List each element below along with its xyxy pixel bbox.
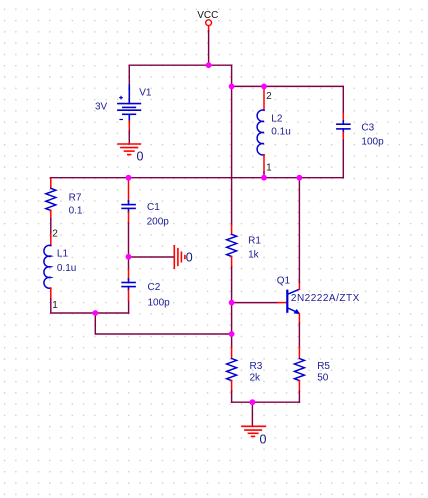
svg-text:V1: V1 xyxy=(139,88,152,99)
inductor L1 pin 1 stub xyxy=(50,288,52,299)
wire bottom rail xyxy=(232,401,300,403)
svg-text:200p: 200p xyxy=(147,216,170,227)
wire ground stub bottom xyxy=(251,402,253,426)
node L2 pin1 junction xyxy=(261,175,267,181)
resistor R3 pin stub bottom xyxy=(231,381,233,392)
node L2 pin2 junction xyxy=(261,84,267,90)
svg-text:100p: 100p xyxy=(148,297,171,308)
wire C2 bottom riser xyxy=(128,301,130,314)
svg-text:R7: R7 xyxy=(69,192,82,203)
wire C3 branch upper xyxy=(342,86,344,113)
resistor R1 zigzag xyxy=(227,234,237,256)
svg-text:L2: L2 xyxy=(271,114,283,125)
svg-text:2: 2 xyxy=(266,91,272,102)
wire VCC vertical xyxy=(208,31,210,65)
inductor L2 pin 2 stub xyxy=(263,86,265,110)
svg-text:C1: C1 xyxy=(147,202,160,213)
Q1 collector pin stub xyxy=(298,283,300,290)
svg-text:0: 0 xyxy=(260,432,267,446)
node bus-tank junction xyxy=(229,84,235,90)
svg-text:Q1: Q1 xyxy=(277,275,291,286)
svg-text:1: 1 xyxy=(266,162,272,173)
inductor L1 coil xyxy=(44,245,51,288)
node C1-C2 midpoint junction xyxy=(126,254,132,260)
node VCC port symbol xyxy=(206,20,212,26)
svg-text:3V: 3V xyxy=(95,101,108,112)
svg-text:2N2222A/ZTX: 2N2222A/ZTX xyxy=(291,293,360,304)
wire collector riser xyxy=(298,178,300,283)
wire R1 to R3 vertical xyxy=(231,267,233,347)
ground 0 under V1 xyxy=(118,144,140,155)
wire R3 to bottom rail xyxy=(231,391,233,402)
resistor R7 pin stub bottom xyxy=(50,210,52,218)
resistor R3 zigzag xyxy=(227,359,237,381)
Q1 base pin stub xyxy=(278,302,287,304)
capacitor C3 pin stub top xyxy=(342,114,344,121)
resistor R3 pin stub top xyxy=(231,347,233,358)
svg-text:VCC: VCC xyxy=(197,10,218,21)
wire L2 bottom xyxy=(263,172,265,178)
node rail-C1 junction xyxy=(126,175,132,181)
capacitor C3 body xyxy=(337,121,350,133)
V1 minus pin stub xyxy=(128,121,130,131)
svg-text:50: 50 xyxy=(317,373,329,384)
svg-text:0: 0 xyxy=(137,149,144,163)
svg-text:C2: C2 xyxy=(148,282,161,293)
wire feedback net bottom xyxy=(95,313,231,334)
svg-text:0.1: 0.1 xyxy=(69,206,83,217)
svg-text:L1: L1 xyxy=(57,248,69,259)
wire C3 branch lower xyxy=(342,140,344,178)
svg-text:R1: R1 xyxy=(248,236,261,247)
wire emitter to R5 xyxy=(298,323,300,347)
battery V1 body xyxy=(118,85,140,121)
wire rail to C1 xyxy=(128,178,130,181)
svg-text:R5: R5 xyxy=(317,361,330,372)
node rail-collector junction xyxy=(297,175,303,181)
capacitor C2 pin stub bottom xyxy=(128,290,130,301)
svg-text:2k: 2k xyxy=(250,373,262,384)
svg-text:2: 2 xyxy=(52,228,58,239)
ground 0 bottom xyxy=(242,426,265,436)
wire base horizontal xyxy=(232,302,278,304)
node feedback tap junction xyxy=(92,310,98,316)
wire main horizontal rail xyxy=(50,177,343,179)
wire R5 to bottom rail xyxy=(298,391,300,402)
capacitor C2 body xyxy=(122,279,135,290)
node base junction xyxy=(229,300,235,306)
svg-text:R3: R3 xyxy=(250,361,263,372)
svg-text:C3: C3 xyxy=(361,122,374,133)
resistor R5 zigzag xyxy=(294,359,304,381)
resistor R1 pin stub top xyxy=(231,225,233,235)
ground 0 mid right-pointing xyxy=(174,246,185,268)
node bottom ground junction xyxy=(250,399,256,405)
node feedback-base junction xyxy=(229,331,235,337)
Q1 emitter pin stub xyxy=(298,314,300,324)
wire top rail from V1 to bus xyxy=(129,65,231,85)
svg-text:100p: 100p xyxy=(361,137,384,148)
node VCC tap xyxy=(206,62,212,68)
svg-text:0: 0 xyxy=(186,250,193,264)
VCC pin stub xyxy=(208,26,210,31)
inductor L2 pin 1 stub xyxy=(263,155,265,172)
resistor R1 pin stub bottom xyxy=(231,256,233,267)
wire tank branch horizontal xyxy=(232,85,344,87)
resistor R5 pin stub top xyxy=(298,347,300,358)
resistor R7 zigzag xyxy=(46,188,56,210)
wire vertical bus upper segment xyxy=(231,65,233,224)
wire junction to mid ground xyxy=(129,256,174,258)
capacitor C1 body xyxy=(122,201,135,212)
wire C1 to C2 junction xyxy=(128,223,130,269)
resistor R5 pin stub bottom xyxy=(298,381,300,392)
capacitor C2 pin stub top xyxy=(128,270,130,280)
wire R7 to L1 xyxy=(50,219,52,235)
svg-text:1: 1 xyxy=(52,300,58,311)
svg-text:0.1u: 0.1u xyxy=(271,127,290,138)
transistor Q1 body xyxy=(287,289,299,312)
resistor R7 pin stub top xyxy=(50,179,52,189)
capacitor C1 pin stub top xyxy=(128,180,130,201)
capacitor C3 pin stub bottom xyxy=(342,132,344,140)
svg-text:1k: 1k xyxy=(248,250,260,261)
capacitor C1 pin stub bottom xyxy=(128,212,130,223)
inductor L2 coil xyxy=(257,110,264,155)
wire V1 to ground xyxy=(128,131,130,144)
inductor L1 pin 2 stub xyxy=(50,234,52,246)
Q1 emitter arrow xyxy=(294,309,301,314)
wire L1 bottom corner xyxy=(51,299,129,313)
svg-text:0.1u: 0.1u xyxy=(57,263,76,274)
